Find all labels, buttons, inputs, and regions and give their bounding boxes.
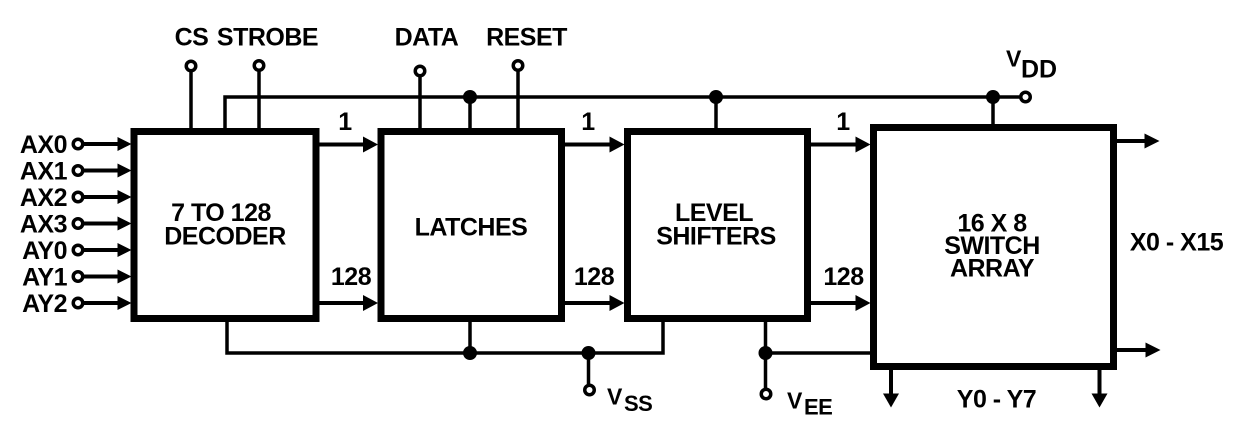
svg-text:1: 1 <box>836 108 850 136</box>
svg-text:AY1: AY1 <box>22 264 67 292</box>
svg-text:AX1: AX1 <box>20 158 68 186</box>
svg-text:LATCHES: LATCHES <box>415 214 528 242</box>
svg-text:DATA: DATA <box>395 24 459 52</box>
svg-text:AX3: AX3 <box>20 211 67 239</box>
svg-text:DD: DD <box>1021 56 1057 84</box>
svg-text:AY0: AY0 <box>22 237 67 265</box>
svg-text:AX0: AX0 <box>20 131 67 159</box>
svg-text:SHIFTERS: SHIFTERS <box>656 223 776 251</box>
svg-text:V: V <box>1006 46 1022 72</box>
svg-text:1: 1 <box>581 108 595 136</box>
svg-text:X0 - X15: X0 - X15 <box>1130 229 1224 257</box>
svg-text:Y0 - Y7: Y0 - Y7 <box>957 386 1036 414</box>
svg-text:128: 128 <box>823 263 864 291</box>
svg-text:AY2: AY2 <box>22 290 67 318</box>
svg-text:1: 1 <box>338 108 352 136</box>
svg-text:CS: CS <box>175 24 209 52</box>
svg-text:ARRAY: ARRAY <box>950 255 1035 283</box>
svg-text:128: 128 <box>331 263 372 291</box>
svg-text:V: V <box>607 384 623 410</box>
svg-text:STROBE: STROBE <box>217 24 318 52</box>
svg-text:V: V <box>787 388 803 414</box>
svg-text:SS: SS <box>624 391 652 416</box>
svg-text:RESET: RESET <box>486 24 567 52</box>
svg-text:128: 128 <box>574 263 615 291</box>
svg-text:DECODER: DECODER <box>164 223 286 251</box>
svg-text:AX2: AX2 <box>20 184 67 212</box>
svg-text:EE: EE <box>804 395 832 420</box>
